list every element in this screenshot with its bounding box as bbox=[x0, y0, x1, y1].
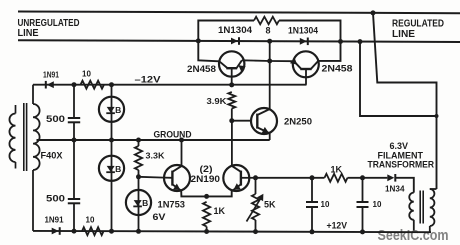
svg-text:1K: 1K bbox=[331, 164, 343, 174]
svg-text:1N91: 1N91 bbox=[43, 69, 59, 79]
svg-text:LINE: LINE bbox=[392, 29, 415, 40]
svg-text:10: 10 bbox=[86, 216, 95, 225]
svg-text:B: B bbox=[142, 198, 148, 208]
svg-text:–12V: –12V bbox=[135, 74, 161, 84]
svg-text:REGULATED: REGULATED bbox=[392, 19, 444, 30]
svg-text:TRANSFORMER: TRANSFORMER bbox=[368, 159, 435, 169]
svg-text:3.3K: 3.3K bbox=[146, 151, 166, 161]
svg-text:+12V: +12V bbox=[327, 221, 348, 231]
svg-text:1K: 1K bbox=[214, 206, 226, 216]
svg-text:5K: 5K bbox=[264, 200, 276, 210]
svg-text:2N250: 2N250 bbox=[284, 117, 312, 127]
svg-text:LINE: LINE bbox=[18, 28, 39, 39]
svg-text:500: 500 bbox=[46, 194, 65, 205]
svg-text:2N458: 2N458 bbox=[322, 64, 353, 74]
svg-text:1N753: 1N753 bbox=[158, 200, 186, 210]
svg-text:B: B bbox=[115, 164, 121, 174]
svg-text:10: 10 bbox=[373, 200, 382, 209]
svg-text:1N1304: 1N1304 bbox=[218, 25, 252, 35]
svg-text:1N34: 1N34 bbox=[385, 183, 405, 193]
svg-text:10: 10 bbox=[82, 70, 91, 79]
svg-text:(2): (2) bbox=[200, 164, 213, 174]
svg-text:2N190: 2N190 bbox=[191, 174, 221, 184]
svg-text:10: 10 bbox=[321, 200, 330, 209]
svg-text:2N458: 2N458 bbox=[187, 64, 216, 74]
svg-text:6V: 6V bbox=[153, 212, 166, 222]
svg-text:F40X: F40X bbox=[41, 151, 63, 161]
svg-text:500: 500 bbox=[46, 114, 65, 125]
svg-text:B: B bbox=[115, 105, 121, 115]
svg-text:3.9K: 3.9K bbox=[207, 96, 228, 106]
svg-text:1N91: 1N91 bbox=[45, 215, 64, 225]
svg-text:8: 8 bbox=[266, 26, 271, 36]
svg-text:1N1304: 1N1304 bbox=[288, 26, 318, 36]
svg-text:GROUND: GROUND bbox=[154, 130, 192, 140]
